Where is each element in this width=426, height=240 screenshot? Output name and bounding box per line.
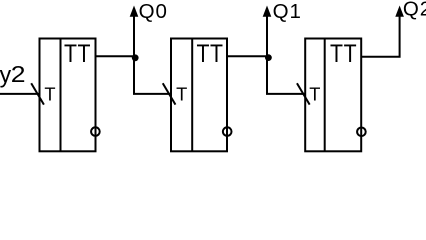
flip-flop U2 inverted output bubble: [223, 127, 232, 136]
svg-text:Q0: Q0: [139, 0, 168, 23]
svg-text:T: T: [309, 83, 320, 104]
svg-text:T: T: [176, 83, 187, 104]
node Q0 junction: [132, 54, 139, 61]
wire Q0 arrow stem: [133, 15, 135, 57]
flip-flop U3 divider: [324, 39, 326, 152]
svg-text:Q2: Q2: [403, 0, 426, 21]
label TT U3: [330, 39, 357, 67]
svg-text:Q1: Q1: [273, 0, 302, 23]
wire Q0 down to U2: [134, 56, 171, 94]
flip-flop U2 body: [171, 39, 227, 152]
wire U3 Q output to Q2 arrow: [361, 15, 399, 57]
flip-flop U2 divider: [191, 39, 193, 152]
flip-flop U1 inverted output bubble: [91, 127, 100, 136]
label TT U2: [196, 39, 223, 67]
svg-text:2: 2: [11, 63, 26, 88]
flip-flop U1 divider: [60, 39, 62, 152]
wire Q1 down to U3: [267, 56, 305, 94]
svg-text:TT: TT: [196, 39, 223, 67]
wire y2 input: [0, 93, 40, 95]
dynamic input slash FF2: [163, 83, 176, 104]
arrowhead Q2: [395, 6, 404, 17]
arrowhead Q1: [263, 6, 272, 17]
dynamic input slash FF1: [31, 83, 44, 104]
wire U1 Q output: [96, 55, 135, 57]
svg-text:TT: TT: [64, 39, 91, 67]
svg-text:T: T: [44, 83, 55, 104]
flip-flop U3 body: [305, 39, 361, 152]
arrowhead Q0: [130, 6, 139, 17]
flip-flop U1 body: [40, 39, 96, 152]
wire U2 Q output: [227, 55, 267, 57]
label TT U1: [64, 39, 91, 67]
svg-text:TT: TT: [330, 39, 357, 67]
dynamic input slash FF3: [297, 83, 310, 104]
wire Q1 arrow stem: [266, 15, 268, 57]
node Q1 junction: [265, 54, 272, 61]
flip-flop U3 inverted output bubble: [357, 128, 366, 137]
